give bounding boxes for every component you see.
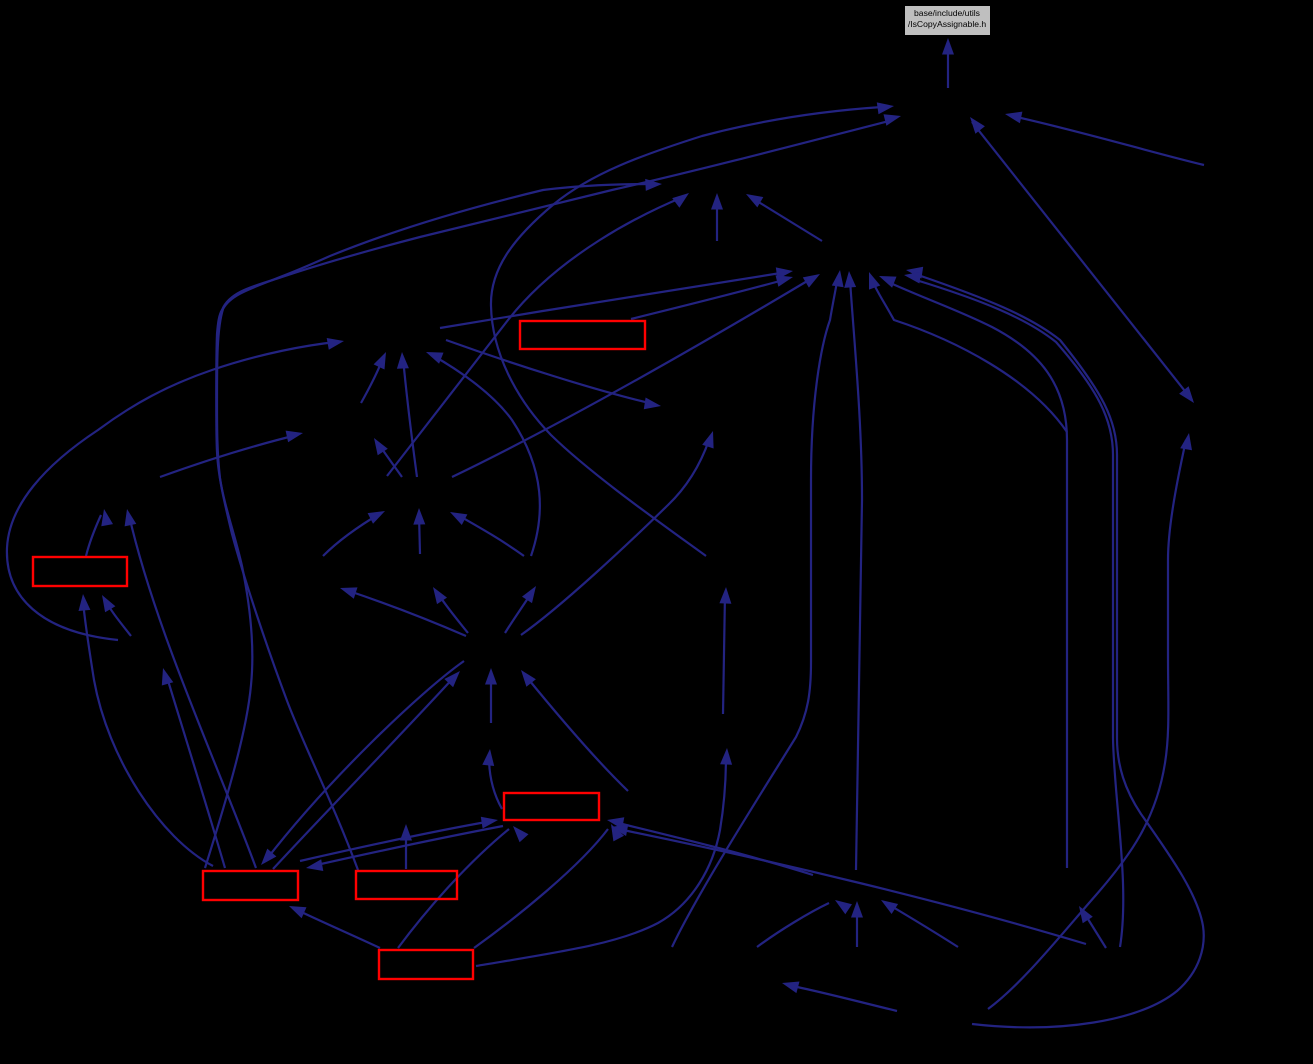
wire RED4-B <box>205 179 662 868</box>
wire F-B <box>387 193 689 476</box>
wire S-A <box>1005 112 1204 165</box>
wire RED4-RED3 <box>300 817 498 861</box>
wire D1-B2 <box>446 340 661 409</box>
node RED2 (highlighted) <box>33 557 127 586</box>
wire M3-A <box>491 102 894 556</box>
wire N9b-M3 <box>719 587 731 714</box>
wire C-B <box>746 194 822 241</box>
wire RED5-A <box>216 114 901 870</box>
wire RED1-C <box>631 275 793 319</box>
wire G-M1 <box>433 587 468 633</box>
wire M0-F <box>323 511 385 556</box>
wire D1-C <box>440 267 793 328</box>
svg-text:base/include/utils: base/include/utils <box>914 8 980 18</box>
wire R-A <box>970 117 1194 403</box>
wire RED6-N10b <box>474 824 624 948</box>
wire G-M0 <box>340 587 466 636</box>
wire K-I <box>1079 906 1106 948</box>
wire W2-H <box>851 901 863 947</box>
wire G-RED4 <box>261 661 464 865</box>
node base/include/utils/IsCopyAssignable.h (root) <box>905 6 991 36</box>
wire L-RED2 <box>102 595 131 636</box>
wire W-C <box>672 270 844 947</box>
wire M2-D1 <box>426 352 540 556</box>
wire RED6-RED4 <box>289 906 380 948</box>
wire N9-G <box>485 668 497 723</box>
wire K-C <box>904 272 1123 947</box>
wire R-C <box>869 272 1067 432</box>
wire G-M2 <box>505 586 536 633</box>
wire W-H <box>757 900 852 947</box>
node RED4 (highlighted) <box>203 871 298 900</box>
wire L-D1 <box>7 338 344 640</box>
wire G-B2 <box>521 431 714 635</box>
wire A-root <box>942 38 954 88</box>
wire RED6-N9b <box>476 748 732 966</box>
wire RED4-RED2 <box>79 594 214 866</box>
wire M1-F <box>413 508 425 554</box>
node RED1 (highlighted) <box>520 321 645 349</box>
wire RED3-RED4 <box>306 826 503 871</box>
wire J-W <box>782 982 897 1012</box>
wire M2-F <box>450 512 524 556</box>
wire RED2-E <box>86 509 113 556</box>
svg-text:/IsCopyAssignable.h: /IsCopyAssignable.h <box>908 19 987 29</box>
wire E-D2 <box>160 431 303 477</box>
wire F-D2 <box>374 438 402 477</box>
wire J-C <box>906 267 1204 1028</box>
wire N10b-G <box>521 670 628 791</box>
wire RED3-N9 <box>482 749 502 809</box>
wire RED6-RED3 <box>398 826 529 948</box>
wire D2-D1 <box>361 352 386 403</box>
wire J-R <box>988 433 1192 1009</box>
wire W3-H <box>881 900 958 947</box>
wire H-C <box>844 271 862 870</box>
node RED6 (highlighted) <box>379 950 473 979</box>
wire H-RED3 <box>607 817 813 875</box>
wire F-D1 <box>397 352 417 477</box>
wire C2-B <box>711 193 723 241</box>
node RED5 (highlighted) <box>356 871 457 899</box>
wire F-C <box>452 274 820 477</box>
wire RED4-E <box>125 509 256 868</box>
wire RED5-N10 <box>400 824 412 869</box>
wire RED4-G <box>273 671 460 869</box>
node RED3 (highlighted) <box>504 793 599 820</box>
wire I-C <box>879 276 1067 868</box>
wire RED4-L <box>162 668 225 868</box>
wire K-RED3 <box>611 824 1086 944</box>
